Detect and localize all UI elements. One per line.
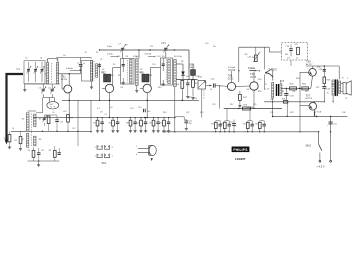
svg-text:5mA: 5mA [280,80,285,83]
svg-text:TS3: TS3 [140,73,145,75]
svg-text:C26: C26 [244,54,247,56]
svg-text:C2: C2 [25,58,27,60]
svg-text:C31: C31 [292,91,295,93]
svg-text:C1: C1 [17,67,21,71]
svg-text:2-20p: 2-20p [177,56,182,58]
svg-text:C11: C11 [150,46,153,48]
svg-text:TS8: TS8 [306,61,311,64]
svg-text:R5: R5 [49,150,51,152]
svg-text:R15: R15 [160,123,163,125]
svg-text:R18: R18 [211,124,214,126]
svg-text:S9: S9 [332,84,334,86]
svg-text:S2: S2 [113,64,115,66]
svg-text:0.25mA: 0.25mA [228,66,236,69]
svg-text:L1: L1 [46,60,48,62]
svg-text:PHILIPS: PHILIPS [233,148,248,152]
svg-text:R6: R6 [126,123,128,125]
svg-text:R26: R26 [282,99,285,101]
svg-text:C22: C22 [196,76,199,78]
svg-text:C10: C10 [60,122,63,124]
svg-text:SK1: SK1 [102,161,107,165]
svg-text:45: 45 [282,91,284,93]
svg-text:C14: C14 [137,123,140,125]
svg-text:TS5: TS5 [250,72,255,76]
svg-text:TS2: TS2 [102,73,107,75]
svg-text:4n7: 4n7 [148,111,151,113]
svg-text:1n: 1n [83,63,85,65]
svg-text:14: 14 [327,93,329,95]
svg-text:390: 390 [285,54,288,56]
svg-text:C9: C9 [52,112,54,114]
svg-text:C13: C13 [152,64,155,66]
svg-text:C7: C7 [126,45,128,47]
svg-text:R21: R21 [243,124,246,126]
svg-text:OA70: OA70 [190,66,196,69]
svg-text:L0X90T: L0X90T [235,157,246,161]
svg-text:C37: C37 [333,124,336,126]
svg-text:SK3: SK3 [252,57,256,59]
svg-text:0.1: 0.1 [105,114,108,116]
svg-text:R14: R14 [194,98,197,100]
svg-text:1k: 1k [12,128,14,130]
svg-text:0.04mA: 0.04mA [249,67,256,70]
svg-text:R27: R27 [316,87,319,89]
svg-text:C3: C3 [39,87,41,89]
svg-text:R15: R15 [228,89,231,91]
svg-text:R17: R17 [230,104,233,106]
svg-text:R12: R12 [200,112,203,114]
svg-text:R14: R14 [163,112,166,114]
svg-text:T2: T2 [342,78,344,80]
svg-text:C36: C36 [342,112,345,114]
svg-text:R7: R7 [140,69,142,71]
svg-text:S-K1: S-K1 [50,104,54,106]
svg-text:S4: S4 [118,56,120,58]
svg-text:R4: R4 [109,123,111,125]
svg-text:L16: L16 [270,99,273,101]
svg-text:log: log [204,82,207,84]
svg-text:4n7: 4n7 [287,58,290,60]
svg-text:C21: C21 [186,112,189,114]
svg-text:0.7mA: 0.7mA [316,110,322,113]
svg-text:R1: R1 [118,75,120,77]
svg-text:47n: 47n [213,46,216,48]
svg-text:OC75: OC75 [250,77,257,79]
svg-text:R18: R18 [258,91,261,93]
svg-text:OC71: OC71 [228,79,235,81]
svg-text:AC128: AC128 [306,97,313,100]
svg-text:C23: C23 [212,104,215,106]
svg-text:U1: U1 [40,58,42,60]
svg-text:1k: 1k [296,58,298,60]
svg-text:C32: C32 [270,112,273,114]
svg-text:C25: C25 [246,89,249,91]
svg-text:R24: R24 [296,78,299,80]
svg-text:R3: R3 [15,140,17,142]
svg-text:b: b [136,154,137,156]
svg-text:T2: T2 [345,98,347,100]
svg-text:S8: S8 [181,61,183,63]
svg-text:5: 5 [347,78,348,80]
svg-text:C27: C27 [230,122,233,124]
svg-text:4-40p: 4-40p [107,46,112,48]
svg-text:C17: C17 [186,76,189,78]
svg-text:C6: C6 [63,55,65,57]
svg-text:5k: 5k [210,89,212,91]
svg-text:50: 50 [259,52,261,54]
svg-text:S1: S1 [96,52,98,54]
svg-text:C15: C15 [138,107,141,109]
svg-text:R5: R5 [121,87,123,89]
svg-text:120p: 120p [133,56,137,58]
svg-text:SK2: SK2 [306,143,312,147]
svg-text:C12: C12 [72,128,75,130]
svg-text:R22: R22 [295,44,298,46]
svg-text:C19: C19 [205,43,208,45]
svg-text:C28: C28 [286,46,289,48]
svg-text:R16: R16 [258,79,261,81]
svg-text:TS7: TS7 [306,95,311,98]
svg-text:+ 4.5 V: + 4.5 V [317,165,325,168]
svg-text:R25: R25 [305,91,308,93]
svg-text:C8: C8 [110,107,112,109]
svg-text:C8: C8 [100,112,102,114]
svg-text:R12: R12 [149,123,152,125]
svg-text:R2: R2 [93,123,95,125]
svg-text:C4: C4 [3,138,5,140]
svg-text:C26: C26 [248,57,251,59]
svg-text:C4: C4 [48,87,50,89]
svg-text:T1: T1 [265,84,267,86]
svg-text:0.6mA: 0.6mA [107,53,113,56]
svg-text:C13: C13 [161,42,166,45]
svg-text:R13: R13 [158,87,161,89]
svg-text:C30: C30 [319,69,322,71]
svg-text:R2: R2 [102,69,104,71]
svg-text:C14: C14 [157,56,160,58]
svg-text:0.1: 0.1 [97,108,100,110]
svg-text:0.95mA: 0.95mA [145,53,152,56]
svg-text:R22: R22 [255,124,258,126]
svg-text:C13: C13 [130,108,133,110]
svg-text:TS4: TS4 [228,74,233,78]
svg-text:C5: C5 [100,59,102,61]
svg-text:R4: R4 [28,150,30,152]
svg-text:C10: C10 [63,111,66,113]
svg-text:100: 100 [189,123,192,125]
svg-text:R29: R29 [290,112,293,114]
svg-text:R19: R19 [220,124,223,126]
svg-text:C29: C29 [253,104,256,106]
svg-text:R20: R20 [244,105,247,107]
svg-text:L3: L3 [56,60,58,62]
svg-text:S2: S2 [85,52,87,54]
svg-text:C11: C11 [41,150,44,152]
svg-text:0.46mA: 0.46mA [66,67,73,70]
